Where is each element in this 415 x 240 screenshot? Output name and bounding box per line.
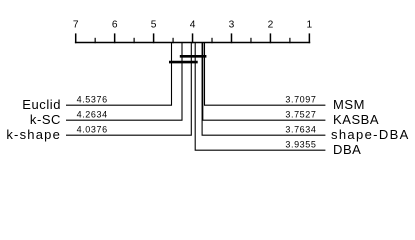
svg-text:3.9355: 3.9355: [285, 140, 316, 150]
svg-text:1: 1: [307, 20, 313, 31]
svg-text:3.7527: 3.7527: [285, 110, 316, 120]
method line k-SC: [66, 43, 182, 121]
svg-text:KASBA: KASBA: [333, 112, 379, 127]
svg-text:3: 3: [229, 20, 235, 31]
svg-text:4.5376: 4.5376: [77, 95, 108, 105]
major tick 1: [308, 33, 310, 43]
svg-text:6: 6: [112, 20, 118, 31]
major tick 7: [75, 33, 77, 43]
svg-text:4.0376: 4.0376: [77, 125, 108, 135]
major tick 5: [153, 33, 155, 43]
svg-text:shape-DBA: shape-DBA: [331, 127, 410, 142]
major tick 3: [230, 33, 232, 43]
minor tick 2.5: [250, 38, 252, 43]
svg-text:DBA: DBA: [333, 142, 361, 157]
clique bar 1 (k-SC..MSM): [180, 55, 207, 58]
svg-text:7: 7: [73, 20, 79, 31]
svg-text:k-SC: k-SC: [30, 112, 61, 127]
minor tick 6.5: [94, 38, 96, 43]
major tick 4: [192, 33, 194, 43]
svg-text:2: 2: [268, 20, 274, 31]
major tick 2: [269, 33, 271, 43]
method line KASBA: [203, 43, 326, 121]
major tick 6: [114, 33, 116, 43]
svg-text:3.7634: 3.7634: [285, 125, 316, 135]
method line DBA: [195, 43, 325, 151]
svg-text:3.7097: 3.7097: [285, 95, 316, 105]
svg-text:5: 5: [151, 20, 157, 31]
svg-text:4.2634: 4.2634: [77, 110, 108, 120]
svg-text:4: 4: [190, 20, 196, 31]
method line shape-DBA: [202, 43, 325, 136]
svg-text:MSM: MSM: [333, 97, 365, 112]
method line Euclid: [66, 43, 172, 106]
minor tick 1.5: [289, 38, 291, 43]
method line k-shape: [66, 43, 191, 136]
svg-text:Euclid: Euclid: [22, 97, 61, 112]
method line MSM: [205, 43, 326, 106]
axis line: [75, 42, 310, 44]
minor tick 4.5: [172, 38, 174, 43]
clique bar 2 (Euclid..DBA): [169, 61, 198, 64]
minor tick 5.5: [133, 38, 135, 43]
minor tick 3.5: [211, 38, 213, 43]
svg-text:k-shape: k-shape: [6, 127, 61, 142]
